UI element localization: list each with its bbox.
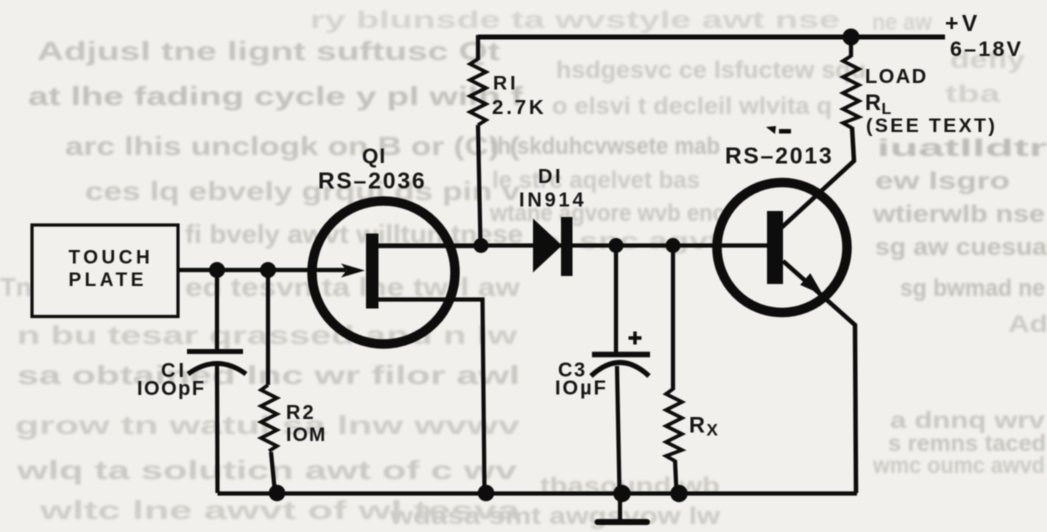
node: RX/base junction [666,238,681,253]
ground [598,493,648,522]
svg-text:arc lhis unclogk on B or (C) (: arc lhis unclogk on B or (C) ( [65,131,520,161]
label Q2 (faint remnant) [766,126,791,134]
capacitor C3 [591,246,650,494]
svg-text:wdasa smt awgsvow lw: wdasa smt awgsvow lw [389,503,721,530]
svg-text:R: R [689,413,705,438]
svg-text:wtierwlb nse: wtierwlb nse [872,201,1045,228]
resistor R2 [261,270,277,493]
node: C1 junction [209,262,225,278]
svg-text:sg aw cuesua: sg aw cuesua [875,234,1047,261]
svg-text:PLATE: PLATE [69,270,147,291]
svg-text:DI: DI [538,166,563,188]
svg-text:th skduhcvwsete mab: th skduhcvwsete mab [490,133,720,160]
svg-text:Ad: Ad [1008,311,1047,338]
svg-text:IOOpF: IOOpF [137,378,206,400]
svg-text:X: X [707,421,719,440]
svg-text:(SEE TEXT): (SEE TEXT) [866,115,997,137]
svg-text:IOµF: IOµF [555,378,608,400]
gate arrowhead [341,264,365,278]
Q1 gate bar [366,234,379,309]
svg-text:ne aw: ne aw [872,9,932,36]
svg-text:6–18V: 6–18V [950,37,1023,61]
svg-text:Adjusl tne lignt suftusc Qt: Adjusl tne lignt suftusc Qt [37,36,500,66]
Q2 emitter arrowhead [800,273,823,295]
node: Q1 source rail junction [478,485,495,502]
svg-text:IOM: IOM [286,424,326,446]
node: RX rail junction [670,485,687,502]
svg-text:TOUCH: TOUCH [69,248,154,269]
diode D1 [533,217,573,276]
capacitor C1 [187,270,246,493]
wire: touch plate to Q1 gate [178,268,346,272]
svg-text:hsdgesvc ce lsfuctew squ: hsdgesvc ce lsfuctew squ [556,57,866,84]
Q2 base bar [767,211,783,284]
svg-text:sg bwmad ne: sg bwmad ne [900,275,1045,302]
svg-text:2.7K: 2.7K [492,96,547,119]
wire: Q1 drain lead [378,244,481,248]
node: R2 junction [260,262,276,278]
wire: +V top rail [478,35,945,40]
svg-text:ry blunsde ta wvstyle awt nse: ry blunsde ta wvstyle awt nse [310,7,840,34]
svg-text:tba: tba [945,81,1001,108]
resistor RX [666,246,682,494]
svg-text:ces lq ebvely grqui ds pin v: ces lq ebvely grqui ds pin v [85,176,521,206]
svg-text:ew lsgro: ew lsgro [875,168,1010,195]
wire: ground bottom rail [218,491,858,495]
resistor R1 [470,59,486,125]
svg-text:wmc oumc awvd: wmc oumc awvd [872,452,1045,478]
wire: Q2 emitter [783,261,856,493]
node: drain/R1 junction [474,238,489,253]
svg-text:wlq ta soluticn awt of c wv: wlq ta soluticn awt of c wv [15,455,517,485]
wire: main horizontal Q1 drain to Q2 base [378,243,768,247]
svg-text:o elsvi t decleil wlvita q: o elsvi t decleil wlvita q [552,93,832,120]
node: D1/C3 junction [609,238,624,253]
wire: Q1 source lead [378,300,485,494]
node: C1 rail junction [269,485,286,502]
svg-text:IN914: IN914 [519,190,586,212]
svg-text:at lhe fading cycle y pl wilh: at lhe fading cycle y pl wilh f [28,81,523,111]
resistor RL (load) [843,37,859,161]
svg-text:iuatlldtr: iuatlldtr [877,135,1047,162]
svg-text:R2: R2 [286,402,316,424]
svg-text:RS–2036: RS–2036 [318,168,427,194]
wire: top rail to R1 [476,35,480,60]
wire: R1 to drain node [478,125,481,246]
wire: Q2 collector [780,160,855,229]
svg-text:LOAD: LOAD [865,66,928,88]
node: +V / RL junction [843,29,860,46]
svg-text:RS–2013: RS–2013 [725,143,834,169]
node: C3 rail junction [613,485,630,502]
transistor Q1 (FET) circle [312,201,455,344]
svg-text:+V: +V [945,10,981,36]
svg-text:Tn: Tn [0,272,32,302]
svg-text:R: R [865,90,881,115]
svg-text:QI: QI [362,145,386,168]
svg-text:RI: RI [493,73,519,95]
transistor Q2 circle [717,183,847,313]
touch plate box [32,225,178,317]
